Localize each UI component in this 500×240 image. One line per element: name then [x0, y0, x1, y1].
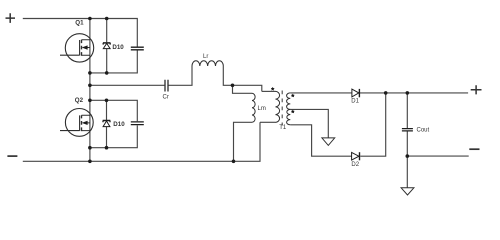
svg-text:Cout: Cout [417, 128, 430, 134]
svg-text:Q1: Q1 [75, 20, 84, 27]
svg-text:T1: T1 [279, 125, 287, 131]
svg-text:Lr: Lr [203, 54, 208, 60]
svg-text:Q2: Q2 [75, 97, 84, 104]
svg-text:D2: D2 [351, 162, 359, 168]
svg-text:D10: D10 [112, 44, 124, 51]
svg-text:Cr: Cr [163, 94, 169, 100]
svg-text:Lm: Lm [258, 106, 266, 112]
svg-text:D1: D1 [351, 99, 359, 105]
svg-text:D10: D10 [113, 121, 125, 128]
